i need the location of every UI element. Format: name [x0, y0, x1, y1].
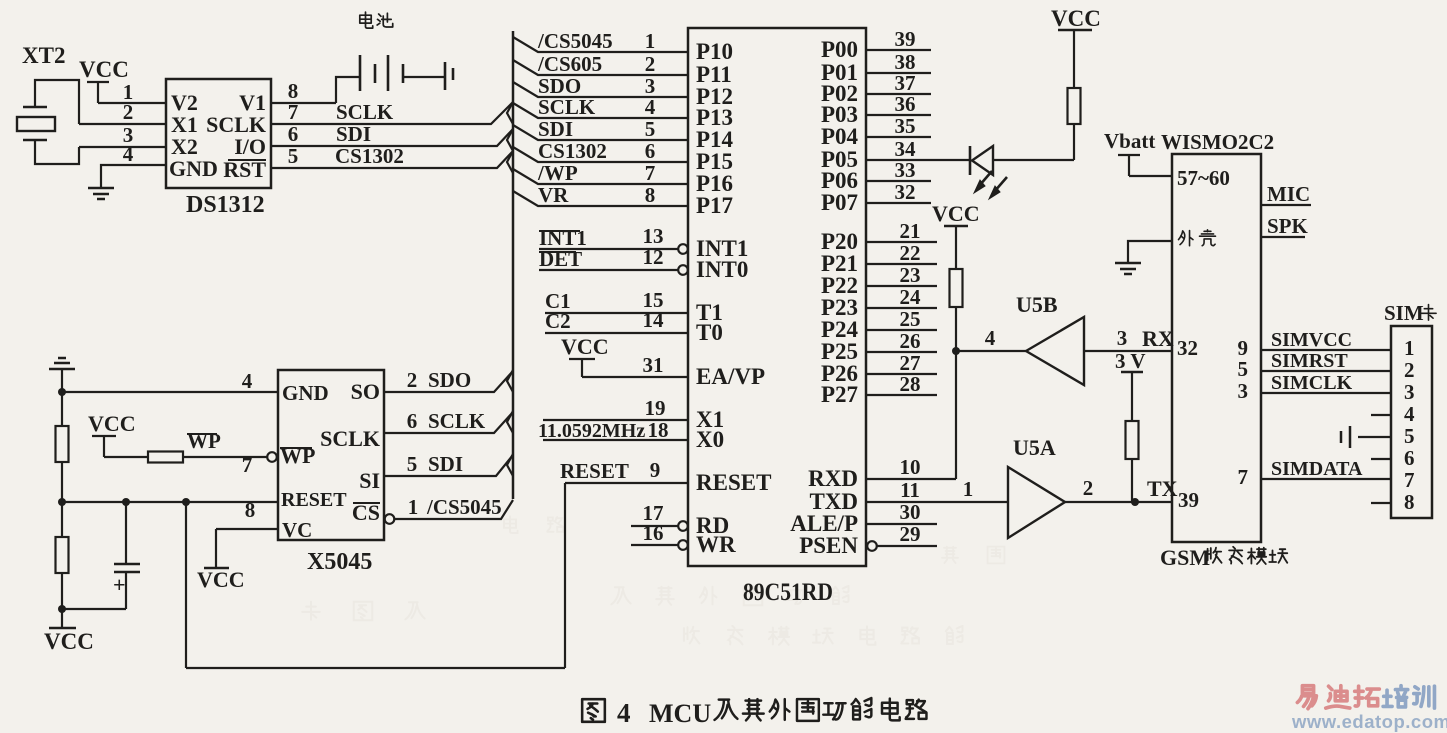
svg-text:C2: C2 — [545, 309, 571, 333]
wire MIC — [1261, 204, 1311, 206]
svg-text:VCC: VCC — [44, 629, 94, 654]
wire X5045 pin8 RESET — [62, 501, 278, 503]
svg-text:1: 1 — [963, 477, 974, 501]
wire P0 port pin 37 — [866, 93, 931, 95]
battery BT1 plate long 1 — [359, 55, 362, 91]
svg-text:+: + — [113, 572, 126, 597]
svg-text:6: 6 — [1404, 446, 1415, 470]
svg-text:VR: VR — [538, 183, 569, 207]
junction bottom rail — [58, 605, 66, 613]
caption 图4 MCU及其外围功能电路 — [582, 699, 605, 722]
inversion bubble INT0 — [678, 265, 688, 275]
svg-text:16: 16 — [643, 521, 664, 545]
svg-text:PSEN: PSEN — [799, 533, 858, 558]
svg-text:RESET: RESET — [281, 489, 347, 511]
svg-text:RESET: RESET — [560, 459, 629, 483]
wire crystal top — [35, 80, 79, 124]
wire P0 port pin 32 — [866, 202, 931, 204]
wire SIM pin8 stub — [1371, 502, 1391, 504]
svg-text:24: 24 — [900, 285, 922, 309]
svg-text:9: 9 — [650, 458, 661, 482]
wire C1 net — [545, 312, 688, 314]
svg-text:P10: P10 — [696, 39, 733, 64]
wire capacitor stem top — [125, 502, 127, 564]
svg-text:SIMCLK: SIMCLK — [1271, 372, 1353, 394]
wire MCU pin 1 net /CS5045 — [513, 37, 688, 52]
svg-text:SIMDATA: SIMDATA — [1271, 458, 1363, 480]
svg-text:SCLK: SCLK — [320, 426, 380, 451]
svg-text:7: 7 — [242, 453, 253, 477]
wire P0 port pin 38 — [866, 72, 931, 74]
wire X0 pin 18 — [543, 439, 688, 441]
svg-text:SDI: SDI — [538, 117, 573, 141]
crystal XT2 bottom plate — [23, 139, 47, 141]
LED D1 triangle — [972, 146, 993, 175]
wire MCU pin 4 net SCLK — [513, 103, 688, 118]
svg-text:6: 6 — [645, 139, 656, 163]
wire RD pin 17 — [631, 525, 678, 527]
svg-text:6: 6 — [288, 122, 299, 146]
wire DET net — [539, 269, 678, 271]
svg-text:7: 7 — [288, 100, 299, 124]
svg-text:4: 4 — [617, 698, 631, 728]
wire RXD pin 10 — [866, 478, 956, 480]
faint bleed-through ghost text — [302, 516, 1004, 645]
power VCC bar (RXD pull-up) — [944, 225, 968, 227]
svg-text:5: 5 — [645, 117, 656, 141]
buffer U5A — [1008, 467, 1065, 538]
battery symbol plate long (SIM pin5) — [1349, 426, 1352, 448]
svg-text:SCLK: SCLK — [336, 100, 394, 124]
svg-text:18: 18 — [648, 418, 669, 442]
wire ground stem (X5045) — [61, 369, 63, 392]
inversion bubble PSEN — [867, 541, 877, 551]
svg-text:SIM: SIM — [1384, 301, 1424, 325]
ground (X5045 GND) — [49, 358, 75, 369]
wire ALE/P pin 30 — [866, 523, 937, 525]
bus merge notch — [507, 370, 513, 392]
power VCC bar (LED) — [1058, 29, 1092, 31]
svg-text:39: 39 — [1178, 488, 1199, 512]
svg-text:GND: GND — [169, 156, 218, 181]
svg-text:12: 12 — [643, 245, 664, 269]
svg-text:2: 2 — [407, 368, 418, 392]
svg-text:U5A: U5A — [1013, 435, 1056, 460]
ground (DS1312 GND pin) — [88, 188, 114, 199]
wire crystal bottom — [35, 140, 79, 164]
svg-text:2: 2 — [645, 52, 656, 76]
bus merge notch — [507, 151, 513, 173]
svg-text:P17: P17 — [696, 193, 733, 218]
wire SDI net (DS1312 pin6 to bus) — [271, 129, 513, 146]
svg-text:DET: DET — [539, 247, 582, 271]
wire VCC to WP resistor — [104, 456, 148, 458]
wire P0 port pin 34 — [866, 159, 970, 161]
LED D1 cathode bar — [969, 146, 972, 175]
wire resistor to TX junction — [1131, 459, 1133, 502]
bus merge notch — [507, 411, 513, 433]
resistor (WP pull-up) — [148, 452, 183, 463]
svg-text:CS1302: CS1302 — [538, 139, 607, 163]
power Vbatt symbol — [1118, 155, 1140, 176]
svg-text:MIC: MIC — [1267, 182, 1310, 206]
svg-text:SIMVCC: SIMVCC — [1271, 329, 1352, 351]
svg-text:I/O: I/O — [234, 134, 266, 159]
svg-text:3: 3 — [1117, 326, 1128, 350]
svg-text:19: 19 — [645, 396, 666, 420]
svg-text:14: 14 — [643, 308, 665, 332]
wire U5B output pin 4 — [956, 350, 1026, 352]
power VCC symbol (EA/VP) — [569, 359, 595, 377]
bus merge notch — [507, 102, 513, 124]
svg-text:35: 35 — [895, 114, 916, 138]
svg-text:U5B: U5B — [1016, 292, 1058, 317]
svg-text:25: 25 — [900, 307, 921, 331]
svg-text:RESET: RESET — [696, 470, 771, 495]
svg-text:1: 1 — [1404, 336, 1415, 360]
svg-text:VCC: VCC — [88, 411, 136, 436]
battery BT1 plate short 1 — [374, 64, 377, 83]
wire VCC bar to resistor — [955, 226, 957, 269]
wire SIMCLK — [1261, 392, 1391, 394]
svg-text:36: 36 — [895, 92, 916, 116]
power VCC symbol (DS1312) — [87, 82, 109, 103]
wire P2 port pin 22 — [866, 263, 937, 265]
svg-text:6: 6 — [407, 409, 418, 433]
junction TX — [1131, 498, 1139, 506]
battery BT1 plate long 2 — [387, 55, 390, 91]
wire SCLK net (X5045 pin6 to bus) — [384, 412, 513, 433]
wire SIM pin6 stub — [1371, 458, 1391, 460]
svg-text:5: 5 — [1238, 357, 1249, 381]
svg-text:7: 7 — [1404, 468, 1415, 492]
wire SCLK net (DS1312 pin7 to bus) — [271, 102, 513, 124]
junction GND rail — [58, 388, 66, 396]
bus merge notch — [507, 454, 513, 476]
svg-text:7: 7 — [1238, 465, 1249, 489]
junction reset riser — [182, 498, 190, 506]
svg-text:5: 5 — [288, 144, 299, 168]
wire X1 pin 19 — [543, 419, 688, 421]
svg-text:39: 39 — [895, 27, 916, 51]
svg-text:8: 8 — [245, 498, 256, 522]
buffer U5B — [1026, 317, 1084, 385]
wire CS1302 net (DS1312 pin5 to bus) — [271, 151, 513, 168]
IC U-DS1312 box — [166, 79, 271, 188]
svg-text:SIMRST: SIMRST — [1271, 350, 1348, 372]
junction U5B output — [952, 347, 960, 355]
wire X5045 pin4 GND — [62, 391, 278, 393]
battery BT1 plate short 2 — [402, 64, 405, 83]
svg-text:5: 5 — [1404, 424, 1415, 448]
pin label 外壳 — [1179, 230, 1216, 246]
wire capacitor to rail — [62, 608, 126, 610]
svg-text:P04: P04 — [821, 124, 859, 149]
wire RESET riser right — [564, 483, 566, 668]
svg-text:VCC: VCC — [197, 567, 245, 592]
wire MCU pin 2 net /CS605 — [513, 60, 688, 75]
svg-text:GND: GND — [282, 381, 329, 405]
wire WP resistor to pin — [183, 456, 267, 458]
svg-text:WR: WR — [696, 532, 736, 557]
resistor (reset divider bottom) — [56, 537, 69, 573]
wire DS1312 pin1 — [98, 102, 166, 104]
svg-text:5: 5 — [407, 452, 418, 476]
svg-text:EA/VP: EA/VP — [696, 364, 765, 389]
svg-text:2: 2 — [1083, 476, 1094, 500]
capacitor C (reset), plate top — [114, 563, 140, 566]
svg-text:INT0: INT0 — [696, 257, 748, 282]
inversion bubble CS — [385, 514, 395, 524]
svg-text:4: 4 — [242, 369, 253, 393]
wire U5A output to WISMO TX — [1065, 501, 1172, 503]
wire P2 port pin 26 — [866, 351, 937, 353]
svg-text:SI: SI — [359, 468, 380, 493]
wire RESET bottom run — [186, 667, 565, 669]
svg-text:2: 2 — [123, 100, 134, 124]
wire P0 port pin 33 — [866, 180, 931, 182]
svg-text:30: 30 — [900, 500, 921, 524]
svg-text:26: 26 — [900, 329, 921, 353]
svg-text:/CS5045: /CS5045 — [537, 29, 613, 53]
wire SIM pin5 to battery symbol — [1358, 436, 1391, 438]
svg-text:/CS605: /CS605 — [537, 52, 602, 76]
wire DS1312 pin2 X1 — [79, 123, 166, 125]
wire MCU pin 8 net VR — [513, 191, 688, 206]
wire reset riser down — [185, 502, 187, 668]
capacitor C (reset), plate bottom — [114, 571, 140, 574]
battery BT1 plate short 3 — [452, 68, 455, 80]
svg-text:31: 31 — [643, 353, 664, 377]
wire battery left — [336, 77, 360, 103]
crystal XT2 body — [17, 117, 55, 131]
svg-text:4: 4 — [985, 326, 996, 350]
svg-text:SPK: SPK — [1267, 214, 1309, 238]
wire PSEN pin 29 — [877, 545, 937, 547]
svg-text:4: 4 — [1404, 402, 1415, 426]
battery BT1 plate long 3 — [444, 62, 447, 90]
wire LED to resistor — [993, 159, 1074, 161]
wire C2 net — [545, 332, 688, 334]
bus vertical line — [512, 31, 515, 499]
resistor (RXD pull-up) — [950, 269, 963, 307]
svg-text:VCC: VCC — [79, 57, 129, 82]
power 3V bar — [1121, 371, 1143, 373]
module WISMO2C2 box — [1172, 154, 1261, 542]
wire U5B input from WISMO RX — [1084, 350, 1172, 352]
svg-text:www.edatop.com: www.edatop.com — [1291, 711, 1447, 732]
svg-text:4: 4 — [645, 95, 656, 119]
resistor (reset divider top) — [56, 426, 69, 462]
svg-text:P00: P00 — [821, 37, 858, 62]
wire DS1312 pin4 GND — [101, 165, 166, 187]
wire capacitor stem bottom — [125, 572, 127, 609]
wire INT1 net — [539, 248, 678, 250]
svg-text:3 V: 3 V — [1115, 349, 1146, 373]
LED D1 emission arrows — [974, 171, 1007, 199]
wire P0 port pin 36 — [866, 114, 931, 116]
wire rail gnd to reset — [61, 392, 63, 502]
wire P2 port pin 28 — [866, 394, 937, 396]
svg-text:XT2: XT2 — [22, 43, 65, 68]
wire CS5045 net (X5045 pin1 to bus) — [394, 500, 513, 519]
svg-text:89C51RD: 89C51RD — [743, 579, 833, 606]
svg-text:32: 32 — [895, 180, 916, 204]
wire VCC stem bottom — [61, 609, 63, 628]
svg-text:29: 29 — [900, 522, 921, 546]
wire battery mid — [403, 76, 445, 78]
svg-text:WISMO2C2: WISMO2C2 — [1161, 130, 1274, 154]
svg-text:P07: P07 — [821, 190, 858, 215]
svg-text:28: 28 — [900, 372, 921, 396]
svg-text:/CS5045: /CS5045 — [426, 495, 502, 519]
svg-text:/WP: /WP — [537, 161, 578, 185]
resistor (LED pull-up) — [1068, 88, 1081, 124]
svg-text:2: 2 — [1404, 358, 1415, 382]
svg-text:VCC: VCC — [561, 334, 609, 359]
svg-text:11: 11 — [900, 478, 920, 502]
svg-text:RX: RX — [1142, 326, 1174, 351]
crystal XT2 top plate — [23, 106, 47, 108]
svg-text:8: 8 — [645, 183, 656, 207]
inversion bubble RD — [678, 521, 688, 531]
svg-text:3: 3 — [1404, 380, 1415, 404]
power VCC bar (bottom left) — [49, 627, 76, 630]
inversion bubble WP — [267, 452, 277, 462]
svg-text:23: 23 — [900, 263, 921, 287]
svg-text:22: 22 — [900, 241, 921, 265]
wire resistor to LED wire — [1073, 124, 1075, 160]
svg-text:SO: SO — [351, 379, 380, 404]
svg-text:VCC: VCC — [1051, 6, 1101, 31]
svg-text:32: 32 — [1177, 336, 1198, 360]
svg-text:8: 8 — [1404, 490, 1415, 514]
svg-text:SDO: SDO — [428, 368, 471, 392]
IC U-X5045 box — [278, 370, 384, 540]
power VCC symbol (WP) — [92, 436, 116, 457]
svg-text:GSM: GSM — [1160, 545, 1210, 570]
wire P0 port pin 35 — [866, 136, 931, 138]
wire X5045 VC pin — [216, 528, 278, 530]
wire SIMRST — [1261, 370, 1391, 372]
svg-text:11.0592MHz: 11.0592MHz — [538, 420, 645, 442]
svg-text:CS1302: CS1302 — [335, 144, 404, 168]
wire MCU pin 6 net CS1302 — [513, 147, 688, 162]
wire DS1312 pin3 X2 — [79, 146, 166, 148]
wire case pin to ground — [1128, 241, 1172, 262]
svg-text:SCLK: SCLK — [428, 409, 486, 433]
svg-text:4: 4 — [123, 142, 134, 166]
svg-text:10: 10 — [900, 455, 921, 479]
wire RESET to MCU pin 9 — [565, 482, 688, 484]
wire SDI net (X5045 pin5 to bus) — [384, 455, 513, 476]
svg-text:1: 1 — [408, 495, 419, 519]
wire VC stem — [215, 529, 217, 568]
inversion bubble INT1 — [678, 244, 688, 254]
junction capacitor top — [122, 498, 130, 506]
wire DS1312 pin8 V1 to battery — [271, 102, 336, 104]
wire MCU pin 5 net SDI — [513, 125, 688, 140]
bus merge notch — [507, 129, 513, 151]
wire P2 port pin 27 — [866, 373, 937, 375]
wire rail reset down — [61, 502, 63, 609]
svg-text:57~60: 57~60 — [1177, 166, 1230, 190]
svg-text:1: 1 — [645, 29, 656, 53]
svg-text:SCLK: SCLK — [538, 95, 596, 119]
label battery 电池 — [360, 12, 393, 28]
svg-text:7: 7 — [645, 161, 656, 185]
svg-text:MCU: MCU — [649, 699, 711, 728]
ground (WISMO case) — [1115, 263, 1141, 274]
wire P2 port pin 25 — [866, 329, 937, 331]
power VCC bar (VC) — [204, 567, 229, 570]
wire 3V bar to resistor — [1131, 372, 1133, 421]
wire WR pin 16 — [631, 544, 678, 546]
svg-text:X0: X0 — [696, 427, 724, 452]
resistor (TX pull-up) — [1126, 421, 1139, 459]
svg-text:Vbatt: Vbatt — [1104, 129, 1155, 153]
svg-text:VC: VC — [282, 518, 312, 542]
svg-text:RXD: RXD — [808, 466, 858, 491]
wire P2 port pin 23 — [866, 285, 937, 287]
wire SIMDATA — [1261, 478, 1391, 480]
wire VCC to resistor — [1073, 30, 1075, 88]
wire SIM pin4 stub — [1371, 414, 1391, 416]
wire P2 port pin 24 — [866, 307, 937, 309]
wire Vbatt to module — [1129, 175, 1172, 177]
wire SDO net (X5045 pin2 to bus) — [384, 371, 513, 392]
IC U-89C51RD box — [688, 28, 866, 566]
svg-text:T0: T0 — [696, 320, 723, 345]
wire MCU pin 3 net SDO — [513, 82, 688, 97]
svg-text:DS1312: DS1312 — [186, 192, 265, 218]
svg-text:X5045: X5045 — [307, 549, 372, 575]
wire MCU pin 7 net /WP — [513, 169, 688, 184]
svg-text:VCC: VCC — [932, 201, 980, 226]
svg-text:SDI: SDI — [336, 122, 371, 146]
svg-text:21: 21 — [900, 219, 921, 243]
wire SPK — [1261, 236, 1305, 238]
junction reset rail — [58, 498, 66, 506]
wire EA/VP pin 31 — [582, 376, 688, 378]
wire junction down to RXD — [955, 351, 957, 479]
battery symbol plate short (SIM pin5) — [1340, 431, 1343, 443]
wire P2 port pin 21 — [866, 241, 937, 243]
wire P0 port pin 39 — [866, 49, 931, 51]
svg-text:33: 33 — [895, 158, 916, 182]
connector SIM card box — [1391, 326, 1432, 518]
watermark 易迪拓培训 — [1297, 686, 1379, 709]
svg-text:P27: P27 — [821, 382, 858, 407]
wire resistor to junction — [955, 307, 957, 351]
svg-text:3: 3 — [1238, 379, 1249, 403]
wire TXD pin 11 — [866, 501, 1008, 503]
inversion bubble WR — [678, 540, 688, 550]
wire SIMVCC — [1261, 349, 1391, 351]
svg-text:SDI: SDI — [428, 452, 463, 476]
svg-text:WP: WP — [280, 443, 315, 468]
svg-text:WP: WP — [187, 429, 221, 453]
